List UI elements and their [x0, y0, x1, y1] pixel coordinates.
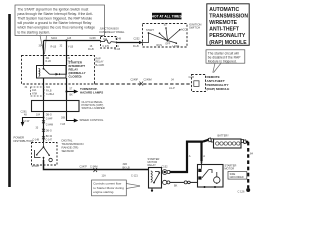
starter relay output terminal — [163, 180, 170, 184]
wire into ignition switch with arrowhead — [117, 41, 143, 44]
inline fuse dashed box 10A — [31, 87, 45, 96]
starter motor relay label — [148, 157, 160, 167]
svg-text:Y-LB: Y-LB — [60, 123, 65, 126]
starter relay ground pin — [151, 188, 153, 192]
fuse panel dashed box — [101, 37, 117, 49]
svg-text:OFF: OFF — [165, 43, 170, 46]
ignition switch position labels — [146, 23, 186, 48]
svg-text:SWITCH JUMPER: SWITCH JUMPER — [82, 106, 105, 110]
wire label 16 R-LB (right of panel) — [115, 37, 122, 50]
CPP switch jumper box — [32, 101, 80, 112]
svg-text:C 270: C 270 — [103, 45, 110, 48]
svg-text:TRANSMISSION: TRANSMISSION — [209, 13, 248, 19]
svg-text:which then energizes the coil,: which then energizes the coil, thus remo… — [18, 26, 96, 30]
svg-text:C248: C248 — [115, 37, 122, 40]
starter interrupt relay label — [69, 60, 86, 78]
svg-text:C152: C152 — [162, 165, 169, 168]
RAP module dashed box — [192, 75, 206, 92]
svg-text:BK-W: BK-W — [46, 135, 53, 138]
starter relay battery terminal — [162, 170, 170, 175]
svg-text:C-148: C-148 — [33, 139, 40, 142]
note box 2 (starter circuit disabled) — [206, 50, 245, 64]
svg-text:DB-O: DB-O — [46, 130, 52, 133]
battery positive terminal clamp — [241, 139, 246, 143]
wire CPP left pin down — [43, 112, 45, 143]
title box — [207, 4, 249, 46]
svg-text:C249F: C249F — [131, 79, 139, 82]
inline connector on bus — [94, 168, 98, 172]
svg-text:SPEED CONTROL: SPEED CONTROL — [80, 118, 104, 122]
starter motor box — [198, 165, 224, 188]
svg-text:(RAP) MODULE: (RAP) MODULE — [209, 40, 247, 46]
case grounded label box — [228, 172, 247, 180]
wire drop to relay pin 2 — [65, 39, 67, 65]
inline connector C249 — [140, 82, 144, 86]
svg-text:C347F: C347F — [80, 165, 88, 168]
svg-text:C-147: C-147 — [46, 139, 53, 142]
svg-text:SWITCH: SWITCH — [189, 26, 200, 30]
label 34 OHM — [25, 86, 28, 89]
starter motor relay box — [149, 168, 162, 189]
CPP label — [82, 100, 105, 110]
svg-text:HOT AT ALL TIMES: HOT AT ALL TIMES — [152, 15, 183, 19]
starter contact arm — [202, 165, 209, 178]
svg-text:R-LB: R-LB — [133, 45, 139, 48]
starter motor winding — [209, 170, 220, 184]
speed control label — [80, 118, 104, 122]
bus wire labels — [102, 163, 139, 177]
wire relay to starter connectors — [170, 181, 197, 184]
svg-text:BATTERY: BATTERY — [218, 135, 230, 138]
TR sensor label — [62, 139, 84, 153]
power distribution label — [14, 136, 34, 143]
svg-text:SENSOR: SENSOR — [62, 149, 74, 153]
wire label 48 GY-W — [23, 114, 30, 123]
relay inner box — [37, 66, 67, 79]
cable gauge labels A — [189, 154, 206, 158]
battery cable branch to starter — [200, 142, 202, 162]
junction box fuse/relay panel label — [100, 27, 125, 34]
turn/stop hazard lamps label — [80, 87, 103, 95]
svg-text:C 126: C 126 — [238, 189, 245, 193]
ignition switch contacts — [142, 29, 180, 44]
svg-text:GY-W: GY-W — [23, 120, 30, 123]
connector label C261 — [21, 109, 28, 113]
svg-text:PERSONALITY: PERSONALITY — [209, 33, 246, 39]
svg-text:engine starting.: engine starting. — [93, 190, 114, 194]
svg-text:START: START — [146, 29, 154, 32]
wire relay pin3 down — [43, 78, 45, 100]
svg-text:C248: C248 — [90, 37, 97, 40]
splice label S204 — [51, 37, 57, 40]
svg-text:BK: BK — [70, 94, 74, 97]
speed control branch — [67, 112, 79, 123]
digital TR sensor dashed box — [32, 143, 58, 166]
svg-text:S204: S204 — [51, 37, 57, 40]
svg-text:W/REMOTE: W/REMOTE — [209, 20, 237, 26]
RAP module label — [207, 75, 230, 91]
cable label 84 — [250, 152, 253, 156]
fuse value label — [103, 38, 110, 48]
main feed wire (top horizontal) — [44, 40, 101, 42]
svg-text:ANTI-THEFT: ANTI-THEFT — [209, 27, 240, 33]
starter relay coil — [151, 171, 152, 182]
svg-text:304: 304 — [39, 44, 44, 47]
svg-text:A: A — [203, 154, 205, 158]
svg-text:ACC: ACC — [181, 29, 186, 32]
svg-text:C-34M: C-34M — [90, 165, 98, 168]
ignition switch label — [189, 22, 201, 29]
ignition switch dashed box — [143, 24, 188, 48]
wire label 16 R-LB — [67, 37, 72, 40]
left border bar — [8, 14, 11, 187]
starter interrupt relay dashed box — [22, 56, 95, 85]
svg-text:LG-P: LG-P — [169, 87, 175, 90]
svg-text:C-84M: C-84M — [46, 124, 53, 127]
svg-text:B+GRD: B+GRD — [96, 64, 105, 67]
svg-text:C-121: C-121 — [131, 175, 138, 178]
connector label C 126 — [238, 189, 245, 193]
svg-text:AUTOMATIC: AUTOMATIC — [209, 7, 239, 13]
battery ground cable (thick dashed) — [246, 142, 248, 188]
wire label 304 R-LB lower — [46, 86, 55, 96]
note box 2 callout tail — [213, 63, 221, 72]
rap relay ground label — [96, 57, 105, 66]
relay pin labels inside dashed box — [46, 58, 73, 63]
note box 1 (START signal note) — [15, 5, 105, 36]
svg-text:C-84F: C-84F — [46, 118, 53, 121]
svg-text:LOCK: LOCK — [173, 45, 180, 48]
fuse F2.30 symbol — [101, 40, 117, 43]
battery — [214, 139, 242, 148]
inline connectors on TR feed wire — [42, 120, 45, 139]
CPP jumper internal pins — [44, 100, 67, 112]
svg-text:C249M: C249M — [144, 79, 152, 82]
bus connector labels — [80, 165, 98, 168]
turn/stop hazard lamps branch — [65, 90, 78, 94]
svg-text:GROUNDED: GROUNDED — [230, 176, 244, 179]
starter solenoid contacts — [198, 169, 201, 180]
svg-text:308: 308 — [61, 116, 66, 119]
svg-text:R-LB: R-LB — [88, 48, 94, 51]
wire label C252 — [133, 37, 140, 47]
svg-text:RELAY: RELAY — [148, 163, 157, 167]
wire label 32 Y-LB — [60, 44, 74, 48]
wire label 511 BK — [70, 87, 74, 96]
svg-text:CLOSED): CLOSED) — [69, 74, 82, 78]
svg-text:BK: BK — [174, 185, 178, 188]
ground cable end blob — [246, 188, 250, 192]
wire TR sensor to starter relay bus — [44, 160, 149, 170]
battery positive cable (thick) — [170, 140, 209, 172]
wire label LG-P — [169, 87, 175, 90]
wire drop to relay pin 1 — [43, 41, 45, 66]
terminal label C152 — [162, 165, 169, 168]
RAP module pin connector — [189, 76, 200, 87]
starter motor ground pins — [204, 183, 218, 189]
power distribution branch — [21, 117, 45, 127]
svg-text:DISTRIBUTION: DISTRIBUTION — [14, 139, 34, 143]
svg-text:HAZARD LAMPS: HAZARD LAMPS — [80, 91, 103, 95]
svg-text:pass through the Starter Inter: pass through the Starter Interrupt Relay… — [18, 12, 93, 16]
TR sensor connector labels — [33, 139, 53, 142]
relay coil — [39, 69, 40, 77]
svg-text:Y-LB: Y-LB — [68, 46, 74, 49]
wire label 308 Y-LB — [60, 116, 66, 125]
svg-text:C-261A: C-261A — [46, 93, 55, 96]
starter motor label — [225, 163, 237, 170]
svg-text:11A: 11A — [102, 175, 107, 178]
label HOT AT ALL TIMES — [152, 13, 183, 20]
RAP module dashed wire — [95, 83, 192, 85]
svg-text:MOTOR: MOTOR — [225, 166, 235, 170]
svg-text:C252: C252 — [134, 37, 141, 40]
wire label C248 left — [88, 37, 96, 51]
svg-text:R-LB: R-LB — [46, 61, 52, 63]
svg-text:to the starting system.: to the starting system. — [18, 30, 51, 34]
svg-text:R-LB: R-LB — [51, 46, 57, 49]
svg-text:Theft System has been triggere: Theft System has been triggered, the RAP… — [18, 17, 93, 21]
note box 3 (controls current flow) — [92, 180, 127, 196]
svg-text:ATM: ATM — [32, 92, 37, 95]
svg-text:(RAP) MODULE: (RAP) MODULE — [207, 87, 230, 91]
svg-text:RUN: RUN — [157, 44, 163, 47]
starter relay contact — [154, 172, 160, 183]
TR feed wire labels — [36, 113, 53, 138]
wire label BK — [174, 185, 178, 188]
starter feed pin — [201, 162, 203, 166]
connector labels C249F C249M — [131, 79, 175, 82]
svg-text:30A: 30A — [103, 38, 108, 41]
wire label 304 R-LB — [39, 44, 57, 48]
battery label — [218, 135, 230, 138]
svg-text:Y-LB: Y-LB — [68, 61, 73, 63]
svg-text:will provide a ground to the S: will provide a ground to the Starter Int… — [18, 21, 92, 25]
svg-text:BK-LB: BK-LB — [123, 166, 131, 169]
TR START position label — [32, 165, 40, 168]
svg-text:FUSE/RELAY PANEL: FUSE/RELAY PANEL — [100, 30, 125, 34]
TR sensor contacts — [35, 142, 53, 162]
svg-text:Module is triggered.: Module is triggered. — [208, 60, 237, 64]
svg-text:A: A — [189, 154, 191, 158]
svg-text:The START signal from the Igni: The START signal from the Ignition Switc… — [18, 7, 89, 11]
svg-text:A-B: A-B — [67, 37, 72, 40]
note box 3 callout tail — [126, 184, 140, 189]
svg-text:DB-O: DB-O — [46, 113, 52, 116]
svg-text:104: 104 — [36, 113, 41, 116]
svg-text:START: START — [32, 165, 40, 168]
battery negative terminal clamp — [208, 138, 213, 142]
note box 1 callout tail — [40, 36, 47, 55]
relay contact — [44, 65, 67, 74]
wire relay pin4 down — [66, 78, 68, 100]
